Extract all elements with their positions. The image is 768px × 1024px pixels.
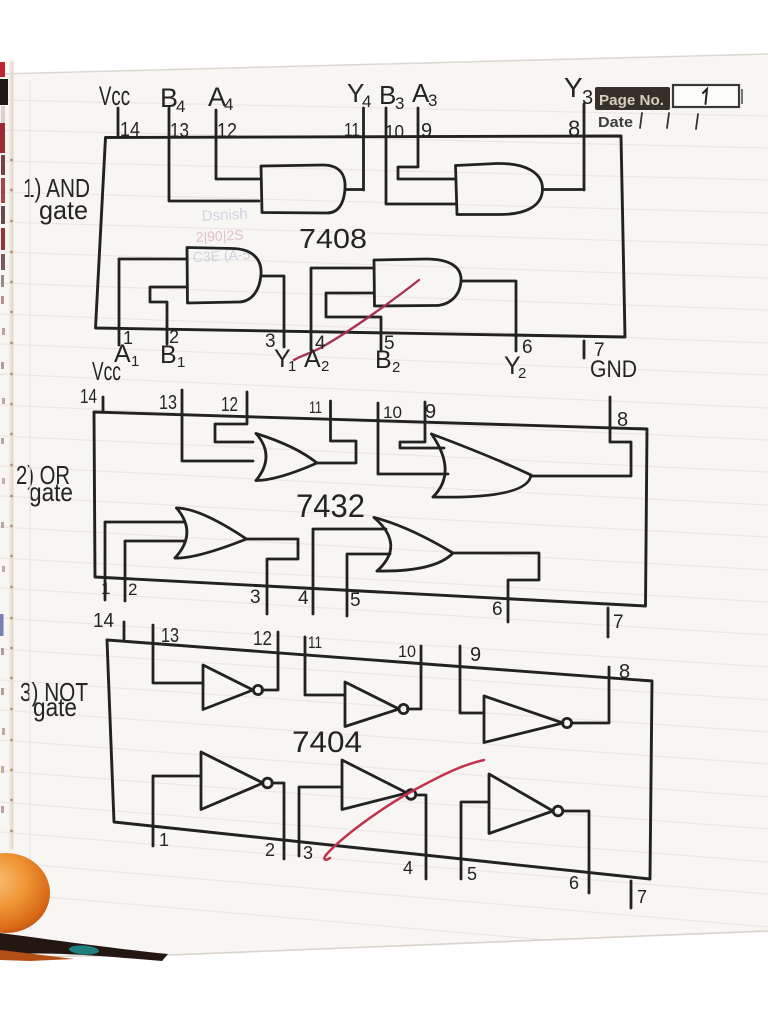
svg-text:4: 4 (224, 95, 233, 114)
svg-text:7404: 7404 (292, 726, 362, 759)
svg-text:GND: GND (590, 356, 637, 383)
svg-text:2|90|2S: 2|90|2S (195, 227, 244, 245)
svg-text:2: 2 (128, 580, 137, 599)
svg-text:10: 10 (398, 642, 416, 661)
svg-text:7: 7 (613, 612, 624, 633)
svg-text:3: 3 (250, 587, 261, 608)
svg-text:2: 2 (265, 840, 275, 860)
svg-text:9: 9 (470, 644, 481, 666)
svg-text:3: 3 (395, 94, 404, 113)
svg-text:3: 3 (582, 87, 593, 109)
svg-text:1: 1 (288, 358, 296, 375)
svg-text:B: B (375, 346, 392, 374)
svg-text:Dsnish: Dsnish (201, 206, 248, 225)
svg-text:14: 14 (93, 610, 114, 632)
svg-text:4: 4 (298, 588, 309, 609)
svg-text:8: 8 (617, 409, 628, 431)
svg-text:3: 3 (303, 843, 313, 863)
svg-text:5: 5 (467, 864, 477, 884)
svg-text:4: 4 (362, 92, 371, 111)
svg-text:2: 2 (518, 365, 526, 382)
svg-text:1: 1 (101, 579, 110, 598)
svg-text:6: 6 (522, 337, 533, 358)
svg-text:10: 10 (383, 403, 402, 422)
svg-text:gate: gate (39, 195, 88, 225)
svg-text:1: 1 (177, 354, 185, 371)
svg-text:13: 13 (159, 392, 177, 414)
svg-text:14: 14 (80, 386, 97, 408)
svg-text:Vcc: Vcc (99, 81, 130, 111)
svg-text:9: 9 (425, 401, 436, 423)
svg-text:2: 2 (392, 359, 400, 376)
svg-text:7432: 7432 (296, 488, 365, 524)
svg-text:11: 11 (344, 120, 360, 140)
svg-text:9: 9 (421, 120, 432, 142)
svg-text:4: 4 (176, 97, 185, 116)
svg-text:6: 6 (569, 873, 579, 893)
svg-text:8: 8 (619, 661, 630, 683)
svg-text:6: 6 (492, 599, 503, 620)
svg-text:7: 7 (637, 887, 647, 907)
svg-text:11: 11 (309, 398, 322, 417)
svg-text:1: 1 (131, 353, 139, 370)
svg-text:Date: Date (598, 115, 633, 131)
svg-text:11: 11 (308, 633, 322, 652)
svg-text:gate: gate (33, 692, 77, 722)
svg-text:Vcc: Vcc (92, 356, 121, 386)
svg-text:2: 2 (321, 358, 329, 375)
svg-text:13: 13 (161, 625, 179, 647)
svg-text:3: 3 (428, 91, 437, 110)
svg-text:12: 12 (253, 628, 272, 650)
svg-text:gate: gate (29, 477, 73, 507)
svg-text:12: 12 (217, 120, 237, 142)
svg-text:13: 13 (170, 120, 189, 142)
svg-text:B: B (379, 80, 396, 110)
svg-text:10: 10 (385, 122, 404, 142)
svg-text:7408: 7408 (299, 223, 367, 254)
svg-text:8: 8 (568, 116, 580, 141)
svg-text:Page No.: Page No. (599, 92, 664, 109)
svg-text:5: 5 (350, 590, 361, 611)
svg-text:B: B (160, 341, 177, 369)
svg-text:14: 14 (120, 119, 140, 141)
svg-text:12: 12 (221, 394, 238, 416)
svg-text:A: A (304, 345, 321, 373)
svg-text:Y: Y (564, 72, 583, 103)
svg-text:4: 4 (403, 858, 413, 878)
svg-text:1: 1 (159, 830, 169, 850)
